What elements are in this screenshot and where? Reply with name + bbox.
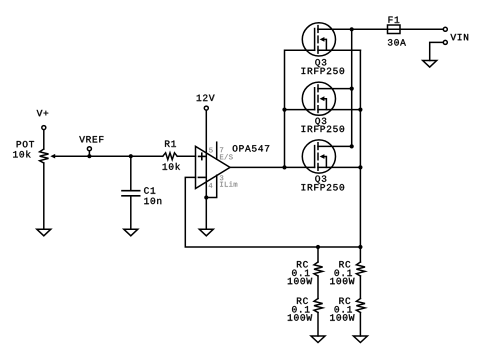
wire drain to fuse [318, 28, 443, 30]
pin 3 label [220, 175, 223, 180]
ground (op-amp V-) [199, 229, 213, 236]
wire gate bus [285, 50, 315, 167]
pin ILim label [220, 181, 237, 186]
wire col2 to ground [359, 313, 361, 337]
label F1 [389, 17, 400, 23]
ground (col2) [353, 336, 367, 343]
transistor Q3 middle IRFP250 [302, 82, 360, 115]
junction shunt column 1 [316, 245, 320, 249]
wire op-amp minus input to feedback [185, 177, 360, 247]
value 100W (col1 lower) [288, 314, 312, 320]
op-amp plus sign [199, 153, 205, 159]
value 0.1 (col2 upper) [334, 270, 351, 276]
label Q3 (middle) [315, 118, 326, 126]
node 12V [197, 95, 215, 111]
op-amp minus sign [198, 176, 204, 178]
label OPA547 [233, 145, 269, 151]
pin 3 ILim line with hook to V- [206, 175, 216, 197]
value 30A (F1) [388, 39, 406, 45]
value IRFP250 (middle) [302, 126, 345, 132]
pin E/S label [220, 154, 233, 159]
transistor Q3 top IRFP250 [302, 23, 360, 56]
resistor RC 0.1 100W (col1 upper) [314, 262, 323, 276]
value 100W (col1 upper) [288, 278, 312, 284]
junction source Q3 bottom [358, 165, 362, 169]
label RC (col2 lower) [339, 298, 350, 304]
node VIN return terminal [443, 34, 468, 44]
wire VIN return to ground [430, 42, 444, 60]
junction drain Q3 bottom [350, 144, 354, 148]
junction output to gate bus [282, 165, 286, 169]
junction gate bus Q3 middle [282, 108, 286, 112]
wire 12V supply through op-amp to V- pin [205, 110, 207, 229]
pin 7 label [220, 147, 223, 152]
label Q3 (top) [315, 59, 326, 67]
wire col1 to ground [317, 313, 319, 337]
value 0.1 (col1 lower) [292, 306, 309, 312]
op-amp U1 OPA547 triangle [196, 146, 231, 188]
junction source bus to shunt wire [358, 245, 362, 249]
transistor Q3 bottom IRFP250 [302, 140, 360, 173]
value 100W (col2 upper) [330, 278, 354, 284]
junction drain bus top [350, 27, 354, 31]
label RC (col2 upper) [339, 261, 350, 267]
wire shunt column 2 upper [359, 247, 361, 262]
value IRFP250 (top) [302, 68, 345, 74]
resistor RC 0.1 100W (col2 upper) [356, 262, 365, 276]
wire between col2 resistors [359, 276, 361, 299]
ground (col1) [311, 336, 325, 343]
wire C1 to ground [130, 196, 132, 229]
junction ILim to V- [204, 195, 208, 199]
value 10k (POT) [13, 151, 30, 158]
wire gate Q3 middle [285, 109, 315, 111]
wire source bus [359, 50, 361, 247]
value 0.1 (col2 lower) [334, 306, 351, 312]
junction drain Q3 middle [350, 87, 354, 91]
junction C1 tap [129, 154, 133, 158]
value 100W (col2 lower) [330, 314, 354, 320]
pin 7 E/S line [216, 142, 218, 159]
junction VREF on wire [87, 154, 91, 158]
node VIN terminal (fused) [443, 27, 447, 31]
label C1 [144, 187, 155, 193]
resistor R1 [163, 153, 177, 160]
capacitor C1 [122, 191, 140, 196]
wire between col1 resistors [317, 276, 319, 299]
node VREF [79, 136, 103, 156]
fuse F1 [388, 25, 401, 34]
wire POT wiper to R1 [55, 155, 163, 157]
resistor RC 0.1 100W (col2 lower) [356, 299, 365, 313]
pin 5 label [209, 148, 212, 153]
wire drain bus [351, 29, 353, 146]
label RC (col1 upper) [297, 261, 308, 267]
value IRFP250 (bottom) [302, 184, 345, 190]
wire shunt column 1 upper [317, 247, 319, 262]
value 10k (R1) [163, 163, 180, 170]
wire C1 tap down to capacitor [130, 156, 132, 191]
ground (VIN return) [423, 61, 437, 68]
node V+ [37, 110, 49, 130]
value 0.1 (col1 upper) [292, 270, 309, 276]
value 10n (C1) [144, 198, 161, 204]
junction source Q3 middle [358, 108, 362, 112]
label RC (col1 lower) [297, 298, 308, 304]
label POT [17, 141, 34, 147]
label Q3 (bottom) [315, 175, 326, 183]
ground (POT) [37, 229, 51, 236]
label R1 [165, 141, 176, 147]
wire V+ terminal to POT top [43, 130, 45, 149]
ground (C1) [124, 229, 138, 236]
pin 4 label [209, 183, 213, 188]
wire R1 to op-amp + input [177, 155, 195, 157]
potentiometer POT [40, 149, 56, 163]
resistor RC 0.1 100W (col1 lower) [314, 299, 323, 313]
wire op-amp output to Q3 gates [230, 166, 315, 168]
wire POT bottom to ground [43, 163, 45, 229]
